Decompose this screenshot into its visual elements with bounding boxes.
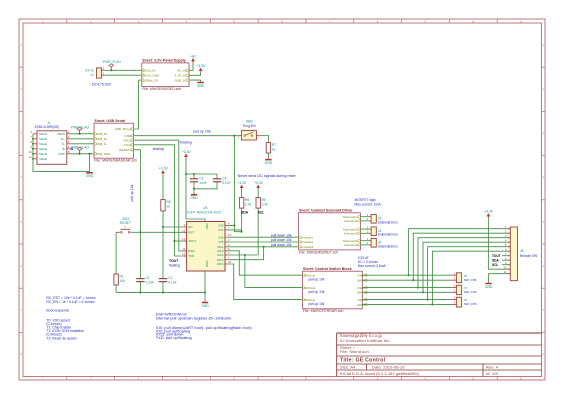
svg-text:Max current: 0.6mA: Max current: 0.6mA (358, 264, 387, 268)
svg-text:File: MWSER620ED.sch: File: MWSER620ED.sch (142, 87, 181, 91)
svg-text:File: MWSER62RD7.sch: File: MWSER62RD7.sch (299, 250, 338, 254)
svg-text:Floating: Floating (180, 141, 192, 145)
svg-text:Sheet: USB Serial: Sheet: USB Serial (94, 119, 125, 123)
svg-text:IO0C: IO0C (125, 134, 133, 138)
svg-text:2.2k: 2.2k (245, 202, 252, 206)
svg-text:USB_D-: USB_D- (96, 142, 107, 146)
svg-text:DCIn_IN: DCIn_IN (144, 68, 156, 72)
svg-text:IO5: IO5 (219, 240, 224, 244)
svg-text:Title: GE Control: Title: GE Control (340, 358, 386, 364)
svg-text:SW_CH1: SW_CH1 (464, 278, 477, 282)
svg-text:pull down 10k: pull down 10k (271, 233, 292, 237)
svg-text:KiCad E.D.A. kicad (5.1.2-187: KiCad E.D.A. kicad (5.1.2-187-ge89ea2f0c… (340, 371, 420, 376)
svg-text:0.1uF: 0.1uF (222, 181, 230, 185)
svg-text:Solenoid3Con: Solenoid3Con (378, 244, 398, 248)
svg-text:IIJ Innovation Institute Inc.: IIJ Innovation Institute Inc. (340, 338, 391, 343)
svg-text:File: MWSUSBASEAR.sch: File: MWSUSBASEAR.sch (94, 159, 137, 163)
svg-text:TXD: pull up/floating: TXD: pull up/floating (156, 335, 192, 340)
svg-text:R5: R5 (166, 200, 170, 204)
svg-text:IO4: IO4 (219, 235, 224, 239)
svg-text:16: 16 (228, 260, 232, 264)
svg-text:floating: floating (169, 263, 180, 267)
svg-text:GND: GND (201, 304, 209, 308)
svg-text:TxDC: TxDC (124, 143, 133, 147)
svg-text:RxDC: RxDC (124, 138, 133, 142)
svg-text:3.3V_DC: 3.3V_DC (175, 73, 188, 77)
svg-text:TXD: TXD (188, 254, 195, 258)
svg-text:Size: A4: Size: A4 (340, 365, 356, 370)
svg-text:pull down 10k: pull down 10k (271, 243, 292, 247)
svg-text:+3.3V: +3.3V (196, 64, 206, 68)
svg-text:Internal pull up/down register: Internal pull up/down register 35~100koh… (156, 316, 232, 321)
svg-text:C4: C4 (222, 176, 226, 180)
svg-text:Solenoid1-: Solenoid1- (344, 219, 359, 223)
svg-text:1k: 1k (166, 204, 170, 208)
svg-text:D+: D+ (61, 137, 65, 141)
svg-text:GND: GND (205, 261, 209, 269)
svg-text:TOUT: TOUT (188, 239, 196, 243)
svg-text:Boot sequence: Boot sequence (46, 309, 69, 313)
svg-text:DC4.75-32V: DC4.75-32V (92, 82, 112, 86)
svg-text:SDA: SDA (492, 259, 499, 263)
svg-text:PWR_FLAG: PWR_FLAG (71, 145, 90, 149)
svg-text:pull up 10k: pull up 10k (309, 278, 325, 282)
svg-text:ZX62-B-5PA(33): ZX62-B-5PA(33) (35, 125, 59, 129)
svg-text:DC-In: DC-In (85, 69, 94, 73)
svg-text:IO0: IO0 (219, 224, 224, 228)
svg-text:0.1uF: 0.1uF (146, 281, 154, 285)
svg-text:IO14: IO14 (217, 253, 224, 257)
svg-text:SCL: SCL (258, 210, 265, 214)
svg-text:10k: 10k (120, 279, 126, 283)
svg-text:10uF: 10uF (199, 181, 207, 185)
svg-text:U5: U5 (203, 206, 208, 210)
svg-text:10: 10 (29, 150, 33, 154)
svg-text:USB_D+: USB_D+ (96, 137, 108, 141)
svg-text:AC_AD: AC_AD (177, 68, 187, 72)
svg-text:pull up 10k: pull up 10k (193, 130, 211, 134)
svg-text:J1: J1 (91, 73, 95, 77)
svg-text:Shield: Shield (39, 142, 47, 146)
svg-text:SW2: SW2 (246, 120, 253, 124)
svg-text:Max current: 1mA: Max current: 1mA (355, 202, 382, 206)
svg-text:SDA: SDA (241, 210, 249, 214)
svg-text:Activate1: Activate1 (300, 235, 313, 239)
svg-text:Solenoid1Con: Solenoid1Con (378, 220, 398, 224)
svg-text:R6: R6 (262, 198, 266, 202)
svg-text:GND: GND (485, 285, 493, 289)
svg-text:GND_DC: GND_DC (174, 78, 188, 82)
svg-text:USB_5V: USB_5V (96, 132, 108, 136)
svg-text:R1: R1 (120, 274, 124, 278)
svg-text:Remote SW: Remote SW (520, 254, 537, 258)
svg-text:Sheet: Control Switch Block: Sheet: Control Switch Block (303, 267, 353, 271)
svg-text:11: 11 (504, 270, 507, 274)
svg-text:2.2k: 2.2k (262, 202, 269, 206)
svg-text:11: 11 (182, 247, 185, 251)
svg-text:Solenoid2Con: Solenoid2Con (378, 233, 398, 237)
svg-text:Shield: Shield (39, 132, 47, 136)
svg-text:12: 12 (182, 252, 186, 256)
svg-text:11: 11 (29, 155, 32, 159)
svg-text:Sheet: 3.3V PowerSupply: Sheet: 3.3V PowerSupply (142, 59, 186, 63)
svg-text:Solenoid3-: Solenoid3- (344, 243, 359, 247)
svg-text:GND: GND (197, 84, 205, 88)
svg-text:10: 10 (503, 265, 507, 269)
svg-text:Activate2: Activate2 (300, 240, 313, 244)
svg-text:+3.3V: +3.3V (254, 181, 264, 185)
svg-text:J2: J2 (47, 121, 51, 125)
svg-text:pull up 10k: pull up 10k (309, 290, 325, 294)
svg-text:IO2: IO2 (219, 228, 224, 232)
svg-text:Shield: Shield (39, 152, 47, 156)
svg-text:C3: C3 (199, 176, 203, 180)
svg-text:IO16: IO16 (217, 262, 224, 266)
svg-text:EN: EN (188, 225, 192, 229)
svg-text:Activate3: Activate3 (300, 245, 313, 249)
svg-text:DCIn_GND: DCIn_GND (144, 73, 160, 77)
svg-text:USB_GND: USB_GND (96, 152, 111, 156)
svg-text:GND: GND (86, 174, 94, 178)
svg-text:RC_EN = 1k * 0.1uF = 0.1msec: RC_EN = 1k * 0.1uF = 0.1msec (46, 300, 94, 304)
svg-text:ESP-WROOM-02D: ESP-WROOM-02D (187, 211, 221, 215)
svg-text:USB_MSout: USB_MSout (115, 127, 132, 131)
svg-text:SW_CH3: SW_CH3 (464, 302, 477, 306)
svg-text:SCL: SCL (492, 263, 498, 267)
svg-text:+3.3V: +3.3V (159, 167, 169, 171)
svg-text:Shield: Shield (39, 147, 47, 151)
svg-text:0.1uF: 0.1uF (168, 281, 176, 285)
svg-text:Rev: 4: Rev: 4 (486, 365, 499, 370)
svg-text:C2: C2 (168, 276, 172, 280)
svg-text:RST: RST (188, 230, 194, 234)
svg-text:Prog EN: Prog EN (243, 124, 256, 128)
svg-text:GND: GND (190, 196, 198, 200)
svg-text:pull up 10k: pull up 10k (309, 302, 325, 306)
svg-text:+AC: +AC (190, 54, 197, 58)
svg-text:ID: ID (62, 147, 65, 151)
svg-text:VDD: VDD (205, 223, 209, 230)
svg-text:R6: R6 (245, 198, 249, 202)
svg-text:VBUS: VBUS (57, 132, 65, 136)
svg-text:15: 15 (182, 228, 186, 232)
svg-text:MOSFET logic: MOSFET logic (355, 198, 377, 202)
svg-text:PWR_FLAG: PWR_FLAG (71, 125, 90, 129)
svg-text:14: 14 (182, 237, 186, 241)
svg-text:1k: 1k (272, 147, 276, 151)
svg-text:pull down 10k: pull down 10k (271, 238, 292, 242)
svg-text:Date: 2019-06-10: Date: 2019-06-10 (372, 365, 405, 370)
svg-text:pull up 10k: pull up 10k (130, 184, 134, 201)
svg-text:RESETC: RESETC (119, 148, 132, 152)
svg-text:RXD: RXD (188, 249, 195, 253)
svg-text:D-: D- (62, 142, 65, 146)
svg-text:+3.3V: +3.3V (182, 150, 192, 154)
svg-text:GND: GND (265, 161, 273, 165)
svg-text:T2: Reset de-assert: T2: Reset de-assert (46, 336, 76, 340)
svg-text:File: Shield.sch: File: Shield.sch (340, 349, 369, 354)
svg-text:GND: GND (58, 152, 64, 156)
svg-text:+3.3V: +3.3V (237, 181, 247, 185)
svg-text:+3.3V: +3.3V (484, 210, 494, 214)
svg-text:J8: J8 (520, 249, 524, 253)
svg-text:Never send I2C signals during: Never send I2C signals during reset (238, 174, 296, 178)
svg-text:Solenoid2-: Solenoid2- (344, 231, 359, 235)
svg-text:Shield: Shield (39, 137, 47, 141)
svg-text:Id: 1/5: Id: 1/5 (486, 371, 498, 376)
svg-text:PWR_FLAG: PWR_FLAG (103, 60, 122, 64)
svg-text:10: 10 (228, 233, 232, 237)
svg-text:Shield: Shield (39, 157, 47, 161)
svg-text:File: MWSCFERRAR.sch: File: MWSCFERRAR.sch (303, 309, 344, 313)
svg-text:C1: C1 (146, 276, 150, 280)
svg-text:SW_CH2: SW_CH2 (464, 290, 477, 294)
svg-text:USBIn_5V: USBIn_5V (144, 78, 159, 82)
svg-text:TOUT: TOUT (492, 254, 501, 258)
svg-text:floating: floating (153, 147, 164, 151)
svg-text:R7: R7 (272, 143, 276, 147)
svg-text:Sheet: Isolated Solenoid Drive: Sheet: Isolated Solenoid Driver (299, 208, 353, 212)
